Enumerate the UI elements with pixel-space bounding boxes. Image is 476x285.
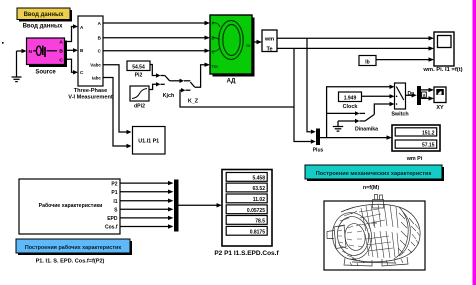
motor sketch [327,195,420,267]
wire AD m to demux [254,40,262,44]
svg-text:63.52: 63.52 [252,186,265,192]
svg-text:XY: XY [436,105,444,111]
wire Ib to Scope in3 [376,57,434,61]
wire ground to Dinamika in2 [338,119,365,123]
mux1 bar [174,180,179,232]
svg-text:Three-Phase: Three-Phase [74,88,108,94]
wire tap vertical to Switch in1 [327,85,395,138]
svg-text:Switch: Switch [391,111,408,117]
wire S to mux1 [120,207,174,211]
svg-text:B: B [59,49,63,55]
svg-text:Tm: Tm [212,64,219,69]
wire Te to Scope in2 [277,46,434,50]
svg-text:78.5: 78.5 [255,218,265,224]
scope block [434,32,454,66]
svg-text:P1. I1. S. EPD. Cos.f=f(P2): P1. I1. S. EPD. Cos.f=f(P2) [36,259,105,265]
wire mux1 to display1 [179,203,223,207]
motor hatching [338,204,420,266]
svg-text:Ввод данных: Ввод данных [23,23,64,29]
svg-text:C: C [59,58,63,64]
svg-text:I1: I1 [113,199,117,205]
stray dot [2,42,4,44]
svg-text:Source: Source [35,70,56,76]
wire wm to Scope in1 [277,36,434,40]
display wm Pi [392,125,440,151]
wire Te vertical to mux Plus in2 [294,48,316,143]
wire Te tap to K_Z in2 [180,88,294,107]
ramp dPi2 [130,86,149,101]
svg-text:Построение механических характ: Построение механических характеристик [316,171,432,177]
svg-text:A: A [212,21,215,26]
svg-text:Kjch: Kjch [163,93,175,99]
manual switch K_Z [190,63,210,88]
svg-text:P2 P1 I1.S.EPD.Cos.f: P2 P1 I1.S.EPD.Cos.f [214,250,279,257]
wire TP A to AD A [103,21,210,25]
button B1 (Ввод данных) [17,8,72,22]
block AD (asynchronous machine, green) [210,15,255,77]
svg-text:Построения рабочих характерист: Построения рабочих характеристик [25,244,121,251]
svg-text:Dp: Dp [408,91,415,97]
svg-text:wm: wm [264,36,274,42]
display1 (P2 P1 I1 S EPD Cos.f) [222,170,272,247]
button B3 (Построения рабочих характеристик) [16,239,132,255]
wire Cos.f to mux1 [120,224,174,228]
svg-text:11.02: 11.02 [253,197,265,203]
motor picture frame [324,201,425,270]
svg-text:0.8175: 0.8175 [250,229,266,235]
demux wm/Te (machines measurement) [262,30,277,52]
svg-text:u: u [423,92,426,97]
block Рабочие характеристики [19,179,120,234]
block U1.I1 P1 subsystem [133,127,166,155]
svg-text:wm Pi: wm Pi [406,156,423,162]
wire P2 to mux1 [120,181,174,185]
svg-text:P2: P2 [111,181,117,187]
wire TP C to AD C [103,49,210,53]
svg-text:N: N [29,49,33,55]
svg-text:Te: Te [266,46,272,52]
magenta border stripe right edge [473,0,476,285]
manual switch Kjch [165,76,191,84]
wire dPi2 to Kjch in2 [149,82,165,89]
clock block [339,92,362,102]
svg-text:wm. Pi. I1 =f(t): wm. Pi. I1 =f(t) [422,67,462,73]
svg-text:m: m [246,43,250,48]
svg-text:Cos.f: Cos.f [105,225,118,231]
svg-text:Iabc: Iabc [92,75,102,80]
svg-text:C: C [212,50,215,55]
wire TP Vabc to U1I1P1 in1 [103,65,132,135]
wire Switch to demux2 with Dp tag [406,91,417,98]
wire mux Plus to display wmPi [320,135,392,139]
XY graph block [434,87,446,103]
svg-text:Ввод данных: Ввод данных [24,12,65,18]
wire ground to Source N [17,49,27,53]
svg-text:Pi2: Pi2 [135,73,143,79]
svg-text:Ib: Ib [365,59,369,65]
wire TP Iabc to U1I1P1 in2 [103,78,132,149]
svg-text:57.15: 57.15 [422,143,435,149]
svg-text:n=f(M): n=f(M) [363,185,380,191]
manual switch Dinamika [365,102,395,121]
wire Clock to Switch in2 [362,94,395,98]
wire Source A to TP A [65,24,79,41]
svg-text:EPD: EPD [107,216,118,222]
wire I1 to mux1 [120,199,174,203]
wire EPD to mux1 [120,216,174,220]
svg-text:1.949: 1.949 [344,95,357,101]
svg-text:Dinamika: Dinamika [355,127,378,133]
tag u [422,92,427,97]
svg-text:U1.I1 P1: U1.I1 P1 [138,138,159,144]
mux Plus bar [316,129,320,146]
button B2 (Построение механических характеристик) [305,165,444,181]
svg-text:Vabc: Vabc [90,63,101,68]
wire demux2 out2 to XY [421,96,434,100]
svg-text:5.458: 5.458 [252,175,265,181]
svg-text:dPi2: dPi2 [134,103,145,109]
constant Ib [359,56,376,66]
block Source (three-phase source, magenta) [27,38,68,67]
wire Pi2 to Kjch in1 [150,65,165,78]
switch block [395,83,406,109]
svg-text:A: A [59,40,63,46]
svg-text:151.2: 151.2 [422,130,435,136]
svg-text:P1: P1 [111,190,117,196]
svg-text:Plus: Plus [313,148,324,154]
wire Source B to TP B [65,48,79,52]
demux2 bar [417,86,421,105]
svg-text:Clock: Clock [343,104,358,110]
ground G1 [12,51,22,82]
wire tap to Dinamika in1 [327,111,365,115]
svg-text:K_Z: K_Z [188,99,199,105]
svg-text:V-I Measurement: V-I Measurement [68,95,113,101]
wire wm vertical to mux Plus in1 [307,38,316,134]
svg-text:54.54: 54.54 [132,64,145,70]
constant Pi2 (54.54) [127,61,150,71]
svg-text:АД: АД [227,79,237,85]
wire demux2 out1 to XY [421,88,434,92]
svg-text:Рабочие характеристики: Рабочие характеристики [39,202,103,209]
wire TP B to AD B [103,36,210,40]
ground G2 [333,121,343,131]
wire P1 to mux1 [120,190,174,194]
block Three-Phase V-I Measurement [78,16,103,86]
svg-text:0.05725: 0.05725 [247,208,265,214]
wire Source C to TP C [65,59,79,74]
svg-text:B: B [212,36,215,41]
